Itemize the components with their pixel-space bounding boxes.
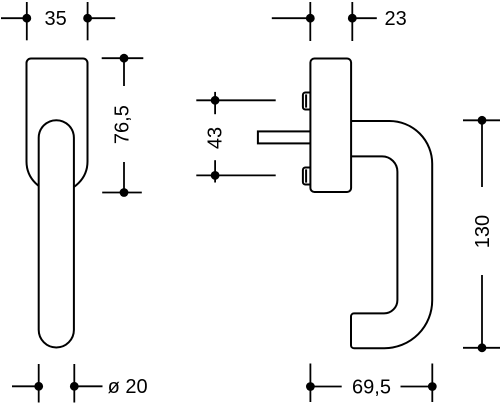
side view upper fixing lug <box>303 93 315 110</box>
dim 43: bottom vertical tick <box>214 160 216 182</box>
dim 35: right extension tick <box>87 2 89 40</box>
dim 69,5: right extension tick <box>431 364 433 403</box>
dim 130: upper stub of dimension line <box>481 120 483 187</box>
side view lower lug inner line <box>305 169 307 182</box>
dim 43: bottom horizontal extension line <box>196 174 275 176</box>
dim 23 right dot <box>348 14 357 23</box>
side view spindle shaft <box>258 131 312 143</box>
svg-text:69,5: 69,5 <box>352 376 391 398</box>
svg-text:76,5: 76,5 <box>112 105 134 144</box>
dim 23 left dot <box>306 14 315 23</box>
side view upper lug inner line <box>305 94 307 107</box>
dim 35: right lead line <box>88 17 116 19</box>
dim 130 top dot <box>478 116 487 125</box>
dim 23: left lead line <box>272 17 311 19</box>
front view grip bar (stadium) <box>39 120 74 347</box>
dim 35 left dot <box>22 14 31 23</box>
dim 43: top vertical tick <box>214 92 216 114</box>
dim o20: right extension tick <box>73 364 75 403</box>
dim o20 left dot <box>34 382 43 391</box>
dim 35: left lead line <box>1 17 27 19</box>
dim 76,5: top tick <box>102 57 144 59</box>
dim 69,5 left dot <box>306 382 315 391</box>
dim 23: right extension tick <box>351 2 353 41</box>
dim 35 right dot <box>83 14 92 23</box>
dim 130: bottom tick <box>463 347 500 349</box>
dim o20: left extension tick <box>38 364 40 403</box>
svg-text:23: 23 <box>384 8 406 30</box>
dim 35: left extension tick <box>26 2 28 40</box>
dim 23: right lead line <box>352 17 377 19</box>
dim 76,5: bottom tick <box>102 192 142 194</box>
dim 43 top dot <box>211 96 220 105</box>
dim 76,5: lower stub of dimension line <box>123 162 125 193</box>
dim 69,5 right dot <box>428 382 437 391</box>
dim 69,5: left extension tick <box>309 364 311 403</box>
svg-text:130: 130 <box>472 215 494 248</box>
side view rosette plate <box>310 59 351 193</box>
dim 76,5 top dot <box>120 54 129 63</box>
dim 43: top horizontal extension line <box>196 99 275 101</box>
side view lower fixing lug <box>303 168 315 185</box>
dim 76,5: upper stub of dimension line <box>123 58 125 86</box>
dim 130: lower stub of dimension line <box>481 275 483 348</box>
front view rosette plate <box>27 59 88 192</box>
dim 76,5 bottom dot <box>120 188 129 197</box>
dim 43 bottom dot <box>211 171 220 180</box>
dim 130: top tick <box>463 119 500 121</box>
dim 69,5: right inner segment <box>401 386 433 388</box>
dim 23: left extension tick <box>309 2 311 41</box>
svg-text:43: 43 <box>204 127 226 149</box>
dim 130 bottom dot <box>478 343 487 352</box>
dim o20: left lead line <box>12 385 39 387</box>
dim 69,5: left inner segment <box>310 386 341 388</box>
dim o20: right lead line <box>74 385 102 387</box>
dim o20 right dot <box>70 382 79 391</box>
svg-text:ø 20: ø 20 <box>108 376 148 398</box>
side view handle (J profile) <box>351 121 432 348</box>
svg-text:35: 35 <box>44 8 66 30</box>
